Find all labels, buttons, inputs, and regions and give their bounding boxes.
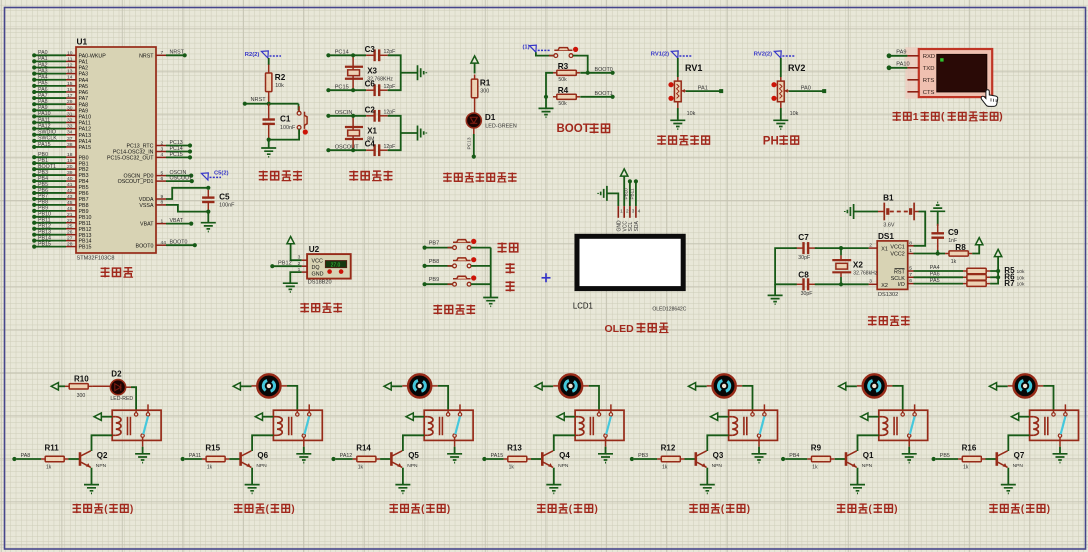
svg-text:42: 42 [67,188,73,194]
chip U1 left pin PA11 (32) net PA11 [32,117,91,126]
svg-text:21: 21 [67,212,73,218]
node PA8 [12,453,41,461]
svg-text:C3: C3 [365,45,376,54]
chip U1 left pin PB5 (41) net PB5 [32,182,88,191]
svg-text:BOOT: BOOT [557,123,590,135]
svg-text:): ) [747,504,750,515]
node BOOT1 [580,91,614,99]
virtual terminal body [919,49,992,97]
ground relay common [598,447,613,463]
caption 继电器(投喂) [989,504,1050,515]
caption 程序运行指示灯 [443,173,516,183]
svg-text:1: 1 [909,248,912,254]
origin marker [542,273,551,282]
svg-text:X1: X1 [367,127,377,136]
ground BOOT circuit [539,97,554,117]
svg-text:(: ( [941,112,945,123]
chip U1 left pin PB7 (43) net PB7 [32,194,88,203]
svg-text:SCLK: SCLK [891,276,905,282]
chip DS1 pin VCC2 (1) [908,248,914,254]
svg-text:R11: R11 [45,444,60,453]
svg-text:PB4: PB4 [789,453,799,459]
svg-text:X1: X1 [881,247,888,253]
caption 继电器(加碱) [837,504,898,515]
svg-text:7: 7 [909,272,912,278]
virtual terminal screen [937,54,987,92]
svg-text:25: 25 [67,224,73,230]
transistor Q6 NPN [241,451,269,469]
wire emitter Q3 to ground [706,468,708,485]
svg-text:Q7: Q7 [1014,451,1025,460]
wire emitter Q6 to ground [251,468,253,485]
svg-text:PA9: PA9 [38,105,48,111]
svg-text:1k: 1k [662,464,668,470]
resistor R4 50k [553,86,580,107]
svg-text:PA10: PA10 [38,111,51,117]
resistor R12 1k [657,444,684,471]
svg-text:C1: C1 [280,114,291,123]
svg-text:PC15: PC15 [170,152,183,158]
svg-text:R10: R10 [74,374,89,383]
svg-text:NPN: NPN [558,463,569,469]
svg-text:CTS: CTS [923,90,935,96]
wire relay coil to collector [858,435,879,451]
svg-text:PA2: PA2 [38,62,48,68]
caption OLED显示屏 [605,323,669,335]
svg-text:R14: R14 [356,444,371,453]
svg-text:PA12: PA12 [340,453,353,459]
svg-text:33: 33 [67,124,73,130]
junction C1 bottom [267,138,271,142]
svg-text:37: 37 [67,136,73,142]
svg-text:): ) [595,504,598,515]
chip U1 left pin PB6 (42) net PB6 [32,188,88,197]
chip DS1 pin X2 (3) [869,279,878,285]
svg-text:PA15: PA15 [491,453,504,459]
svg-text:PA3: PA3 [79,72,89,78]
svg-text:12pF: 12pF [384,110,396,116]
ground relay common [447,447,462,463]
svg-text:PA3: PA3 [38,68,48,74]
wire button to BOOT0 node [573,56,588,73]
svg-text:OSCOUT: OSCOUT [170,176,193,182]
svg-text:BOOT0: BOOT0 [136,243,154,249]
chip DS1 pin (7) wire net PA6 [908,272,963,278]
ground clock module [768,295,783,304]
chip U1 left pin PA0-WKUP (10) net PA0 [32,50,106,59]
chip U1 left pin PA12 (33) net PA12 [32,123,91,132]
chip U1 right pin PC13_RTC (2) net PC13 [127,140,193,150]
chip U1 left pin PB12 (25) net PB12 [32,224,91,233]
svg-text:27.0: 27.0 [331,262,341,268]
svg-text:8: 8 [909,240,912,246]
caption 继电器(抽水) [389,504,450,515]
svg-text:): ) [447,504,450,515]
potentiometer RV2 10k [771,58,805,117]
ground RV2 [773,102,788,129]
caption 减 [506,281,515,291]
svg-text:PA0-WKUP: PA0-WKUP [79,53,107,59]
LED D2 LED-RED [92,370,133,402]
chip U1 left pin PA4 (14) net PA4 [32,75,88,84]
power terminal (left arrow) relay coil [711,413,729,420]
svg-text:12pF: 12pF [384,49,396,55]
svg-text:R9: R9 [811,444,822,453]
wire relay coil to collector [707,435,728,451]
svg-text:39: 39 [67,170,73,176]
mouse hand cursor [981,90,998,107]
svg-text:4: 4 [638,209,641,214]
svg-text:STM32F103C8: STM32F103C8 [77,256,115,262]
svg-text:): ) [999,112,1002,123]
svg-text:R15: R15 [205,444,220,453]
wire R9 to base [835,458,845,460]
chip U1 right pin NRST (7) net NRST [139,50,187,60]
power terminal (left arrow) relay coil [557,413,575,420]
svg-text:3.6V: 3.6V [883,223,894,229]
svg-text:Q1: Q1 [863,451,874,460]
node OSCOUT [326,145,366,153]
wire R13 to base [531,458,541,460]
svg-text:C7: C7 [798,233,809,242]
chip U1 left pin PA1 (11) net PA1 [32,56,88,65]
svg-text:U1: U1 [77,37,88,47]
svg-text:PB15: PB15 [38,241,51,247]
svg-text:DQ: DQ [312,265,320,271]
wire R12 to base [685,458,695,460]
svg-text:RV2: RV2 [788,63,805,73]
svg-text:2: 2 [626,209,629,214]
node PA15 [482,453,503,461]
svg-text:PA0: PA0 [801,85,811,91]
ground emitter Q2 [84,485,99,494]
svg-text:PA12: PA12 [79,127,92,133]
svg-text:4: 4 [161,152,164,158]
svg-text:NPN: NPN [256,463,267,469]
svg-text:PA6: PA6 [38,87,48,93]
chip U2 pin DQ (2) net PB12 [270,261,307,269]
svg-text:1k: 1k [358,464,364,470]
svg-text:R16: R16 [962,444,977,453]
capacitor C5 100nF [202,186,235,214]
wire battery to VCC1 [914,212,926,246]
crystal X2 32.768kHz [832,248,877,284]
ground relay common [1053,447,1068,463]
node OSCIN [326,110,366,118]
chip U1 left pin PB3 (39) net PB3 [32,170,88,179]
svg-text:VSSA: VSSA [139,203,154,209]
svg-text:VCC2: VCC2 [890,252,904,258]
power terminal (left arrow) motor RL2 [233,383,257,390]
chip U1 left pin PA14 (37) net SWCLK [32,136,91,145]
chip U1 left pin PB11 (22) net PB11 [32,218,91,227]
relay RL7 [1030,404,1079,446]
ground (rotated) OLED GND [598,186,618,206]
svg-text:41: 41 [67,182,73,188]
wire R15 to base [229,458,239,460]
wire C9 to VCC2 row [937,245,939,254]
svg-text:14: 14 [67,75,73,81]
svg-text:PH: PH [763,135,779,147]
caption 时钟模块 [868,316,910,326]
capacitor C2 12pF [365,105,396,121]
svg-text:X2: X2 [853,261,863,270]
wire motor to relay contact [1036,386,1053,410]
svg-text:16: 16 [67,87,73,93]
caption 串口1窗口（模拟手机端） [893,112,1003,123]
svg-text:LCD1: LCD1 [573,301,593,310]
svg-text:(1): (1) [523,45,530,51]
svg-text:PB9: PB9 [429,277,440,283]
ground emitter Q4 [546,485,561,494]
svg-text:Q6: Q6 [257,451,268,460]
wire motor to relay contact [735,386,752,410]
capacitor C9 1nF [931,224,959,247]
svg-text:10k: 10k [275,83,284,89]
svg-text:PA6: PA6 [79,90,89,96]
svg-text:TXD: TXD [923,66,935,72]
svg-text:PA5: PA5 [38,81,48,87]
transistor Q2 NPN [80,451,108,469]
svg-text:PB7: PB7 [429,241,440,247]
resistor R5 10k [963,266,1025,275]
svg-text:2: 2 [161,140,164,146]
svg-text:30pF: 30pF [801,291,813,297]
svg-text:1: 1 [161,218,164,224]
power terminal (left arrow) motor RL3 [384,383,408,390]
svg-text:SWCLK: SWCLK [38,136,57,142]
caption 独立按键 [433,305,475,315]
svg-text:17: 17 [67,93,73,99]
relay RL6 [879,404,928,446]
svg-text:PA5: PA5 [79,84,89,90]
svg-text:34: 34 [67,130,73,136]
svg-text:3: 3 [161,146,164,152]
wire right rail to ground [388,116,418,150]
svg-text:8: 8 [161,200,164,206]
svg-text:PA8: PA8 [21,453,31,459]
svg-text:B1: B1 [883,193,894,202]
battery B1 3.6V [878,193,919,228]
svg-text:C4: C4 [365,140,376,149]
power arrow pull-ups [994,249,1001,256]
terminal pin CTS [907,90,934,96]
chip U1 right pin VSSA (8) [139,200,166,209]
crystal X3 32.768KHz [345,55,393,90]
wire R1 to D1 [474,102,476,113]
display LCD1 OLED128642C [573,236,687,312]
keys right rail wire [490,248,492,298]
svg-text:D1: D1 [485,113,496,122]
power terminal (left arrow) relay coil [94,413,112,420]
svg-text:40: 40 [67,176,73,182]
resistor R11 1k [41,444,68,471]
svg-text:NPN: NPN [96,463,107,469]
chip U1 left pin PB0 (18) net PB0 [32,152,88,161]
chip U1 right pin OSCIN_PD0 (5) net OSCIN [123,170,193,180]
motor icon RL3 [408,374,431,397]
caption 浑浊度调节 [657,135,709,145]
svg-text:PA7: PA7 [79,96,89,102]
svg-text:1k: 1k [963,464,969,470]
svg-text:DS1302: DS1302 [878,292,898,298]
svg-text:NPN: NPN [862,463,873,469]
svg-text:26: 26 [67,230,73,236]
motor icon RL6 [863,374,886,397]
svg-text:C8: C8 [798,271,809,280]
OLED pin GND (1) [617,206,624,231]
wire emitter Q5 to ground [402,468,404,485]
node SDA wire [630,179,638,206]
wire D1 to PC13 terminal [467,128,476,159]
svg-text:PA0: PA0 [38,50,48,56]
wire VCC2 to R8 [914,251,946,255]
transistor Q3 NPN [696,451,724,469]
caption 继电器(加热) [73,504,134,515]
caption 继电器(加酸) [689,504,750,515]
wire motor to relay contact [431,386,448,410]
svg-text:1: 1 [620,209,623,214]
ground RV1 [670,102,685,129]
svg-text:R2: R2 [275,73,286,82]
push button PB9 [423,275,491,286]
power terminal (left arrow) motor RL4 [535,383,559,390]
svg-text:13: 13 [67,69,73,75]
svg-text:RV1(2): RV1(2) [651,52,669,58]
svg-text:PA8: PA8 [38,99,48,105]
svg-text:VBAT: VBAT [140,222,154,228]
ground reset circuit [261,140,276,157]
wire VSSA to C5 bottom [166,205,208,212]
node PB5 [932,453,959,461]
ground (rotated) battery left [845,204,878,219]
svg-text:OLED: OLED [605,323,635,335]
svg-text:5: 5 [909,266,912,272]
ground relay common [135,447,150,463]
power arrow R8 [972,238,983,254]
power terminal (left arrow) motor RL6 [839,383,863,390]
wire relay coil to collector [252,435,273,451]
node NRST [243,97,299,106]
svg-text:Q4: Q4 [559,451,570,460]
wire D2 to relay contact [126,387,137,410]
OLED pin SDA (4) [634,206,641,231]
svg-text:VCC: VCC [312,258,323,264]
caption 测温模块 [300,303,342,313]
chip DS1 pin X1 (2) [869,242,878,248]
chip U1 left pin PA3 (13) net PA3 [32,68,88,77]
power terminal (left arrow) R10 [51,383,65,390]
chip U1 left pin PA10 (31) net PA10 [32,111,91,120]
capacitor C1 100nF [263,104,296,140]
svg-text:C2: C2 [365,105,376,114]
ground relay common [902,447,917,463]
wire VDDA to C5 [166,188,208,199]
resistor R14 1k [353,444,380,471]
svg-text:C6: C6 [365,80,376,89]
svg-text:1k: 1k [207,464,213,470]
svg-text:10k: 10k [687,111,696,117]
svg-text:PA13: PA13 [79,133,92,139]
chip U1 left pin PA5 (15) net PA5 [32,81,88,90]
terminal pin RXD net PA9 [887,50,936,60]
svg-text:PA7: PA7 [38,93,48,99]
chip DS1 pin (5) wire net PA4 [908,265,963,271]
svg-text:NPN: NPN [1013,463,1024,469]
LED D1 LED-GREEN [466,113,517,129]
wire right rail to ground [388,55,418,90]
svg-text:OLED128642C: OLED128642C [652,307,686,313]
svg-text:100nF: 100nF [219,202,235,208]
svg-text:11: 11 [67,56,72,62]
chip U1 right pin VDDA (9) [139,194,166,203]
ground emitter Q5 [395,485,410,494]
svg-text:Q3: Q3 [713,451,724,460]
svg-text:100nF: 100nF [280,125,296,131]
node PA11 [181,453,202,461]
resistor R16 1k [958,444,985,471]
motor icon RL2 [257,374,280,397]
push button PB8 [423,257,491,268]
ground emitter Q3 [700,485,715,494]
svg-text:PA4: PA4 [79,78,89,84]
pot wiper wire net PA0 [784,85,826,93]
chip U1 left pin PA15 (38) net PA15 [32,142,91,151]
power arrow U2 [287,237,302,261]
svg-text:BOOT0: BOOT0 [170,240,188,246]
svg-text:30: 30 [67,105,73,111]
node PC15 [326,85,366,93]
wire emitter Q7 to ground [1007,468,1009,485]
ground relay common [752,447,767,463]
svg-text:NRST: NRST [251,97,267,103]
svg-text:PA15: PA15 [38,142,51,148]
svg-text:PA14: PA14 [79,139,92,145]
svg-text:I/O: I/O [898,282,905,288]
wire R11 to base [68,458,79,460]
chip U1 left pin PB8 (45) net PB8 [32,200,88,209]
svg-text:9: 9 [161,194,164,200]
svg-text:BOOT1: BOOT1 [595,91,613,97]
junction crystal bottom [351,148,355,152]
capacitor C3 12pF [365,45,396,61]
svg-text:D2: D2 [111,370,122,379]
svg-text:OSCOUT: OSCOUT [335,145,360,151]
ground (rotated) crystal group [418,126,427,141]
chip U1 left pin PB15 (28) net PB15 [32,241,91,250]
left rail to ground (clock) [775,248,797,295]
resistor R7 10k [963,279,1025,288]
node PB3 [630,453,657,461]
chip DS1 DS1302 body [877,232,908,298]
caption 设置 [498,242,518,252]
relay RL3 [424,404,473,446]
svg-text:10k: 10k [1017,269,1025,275]
pull-up rail wire [990,257,1000,284]
svg-text:R4: R4 [558,86,569,95]
svg-text:Q5: Q5 [408,451,419,460]
power arrow above R1 [471,56,478,74]
svg-text:C5: C5 [219,192,230,201]
relay RL4 [575,404,624,446]
svg-text:PC15: PC15 [335,85,349,91]
svg-text:R1: R1 [480,78,491,87]
svg-text:6: 6 [909,278,912,284]
ground emitter Q6 [245,485,260,494]
svg-text:12: 12 [67,63,73,69]
ground relay common [296,447,311,463]
svg-text:20: 20 [67,164,73,170]
